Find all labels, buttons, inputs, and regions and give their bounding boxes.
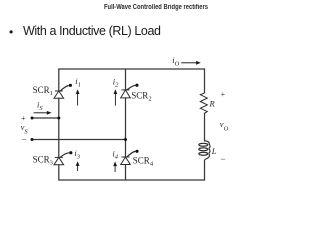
bullet marker xyxy=(9,25,13,39)
svg-text:SCR2: SCR2 xyxy=(131,91,151,103)
wire inner leg lower segment xyxy=(125,165,127,181)
thyristor SCR4 xyxy=(121,150,139,165)
svg-text:vO: vO xyxy=(220,119,229,132)
slide title xyxy=(23,4,289,11)
bullet text xyxy=(23,24,161,38)
svg-text:i4: i4 xyxy=(112,148,118,160)
wire load leg lower segment xyxy=(204,161,206,181)
svg-text:iO: iO xyxy=(172,55,179,68)
thyristor SCR2 xyxy=(121,84,139,98)
wire load leg upper segment xyxy=(204,69,206,93)
wire inner leg middle segment xyxy=(125,98,127,157)
junction dot node A left leg xyxy=(57,117,60,120)
wire left leg upper segment xyxy=(58,69,60,91)
wire left leg lower segment xyxy=(58,165,60,180)
wire source plus lead xyxy=(32,117,59,119)
wire top rail xyxy=(59,68,205,70)
svg-text:SCR1: SCR1 xyxy=(33,85,53,97)
junction dot source plus terminal xyxy=(31,117,34,120)
svg-text:SCR3: SCR3 xyxy=(33,154,53,166)
wire bottom rail xyxy=(59,179,205,181)
svg-text:−: − xyxy=(22,135,27,145)
thyristor SCR3 xyxy=(54,151,72,165)
svg-text:vS: vS xyxy=(21,122,29,135)
inductor L xyxy=(199,141,210,161)
wire source minus lead xyxy=(32,139,126,141)
svg-text:+: + xyxy=(21,114,26,123)
wire left leg middle segment xyxy=(58,98,60,157)
wire inner leg upper segment xyxy=(125,69,127,90)
arrow current i3 xyxy=(76,161,80,171)
arrow current iO xyxy=(181,61,201,65)
resistor R xyxy=(200,93,207,113)
junction dot node B inner leg xyxy=(124,138,127,141)
svg-text:SCR4: SCR4 xyxy=(133,156,154,168)
arrow current i2 xyxy=(114,89,118,105)
svg-text:i1: i1 xyxy=(75,76,81,88)
svg-text:i2: i2 xyxy=(113,76,119,88)
svg-text:−: − xyxy=(221,154,226,164)
svg-text:L: L xyxy=(211,146,217,156)
arrow current i1 xyxy=(76,89,80,105)
arrow current iS xyxy=(34,111,52,115)
wire load leg between R and L xyxy=(204,113,206,141)
arrow current i4 xyxy=(113,161,117,172)
thyristor SCR1 xyxy=(54,84,72,98)
junction dot source minus terminal xyxy=(31,138,34,141)
svg-text:R: R xyxy=(209,99,216,109)
svg-text:iS: iS xyxy=(37,99,43,112)
svg-text:+: + xyxy=(221,90,226,99)
svg-text:i3: i3 xyxy=(74,148,80,160)
